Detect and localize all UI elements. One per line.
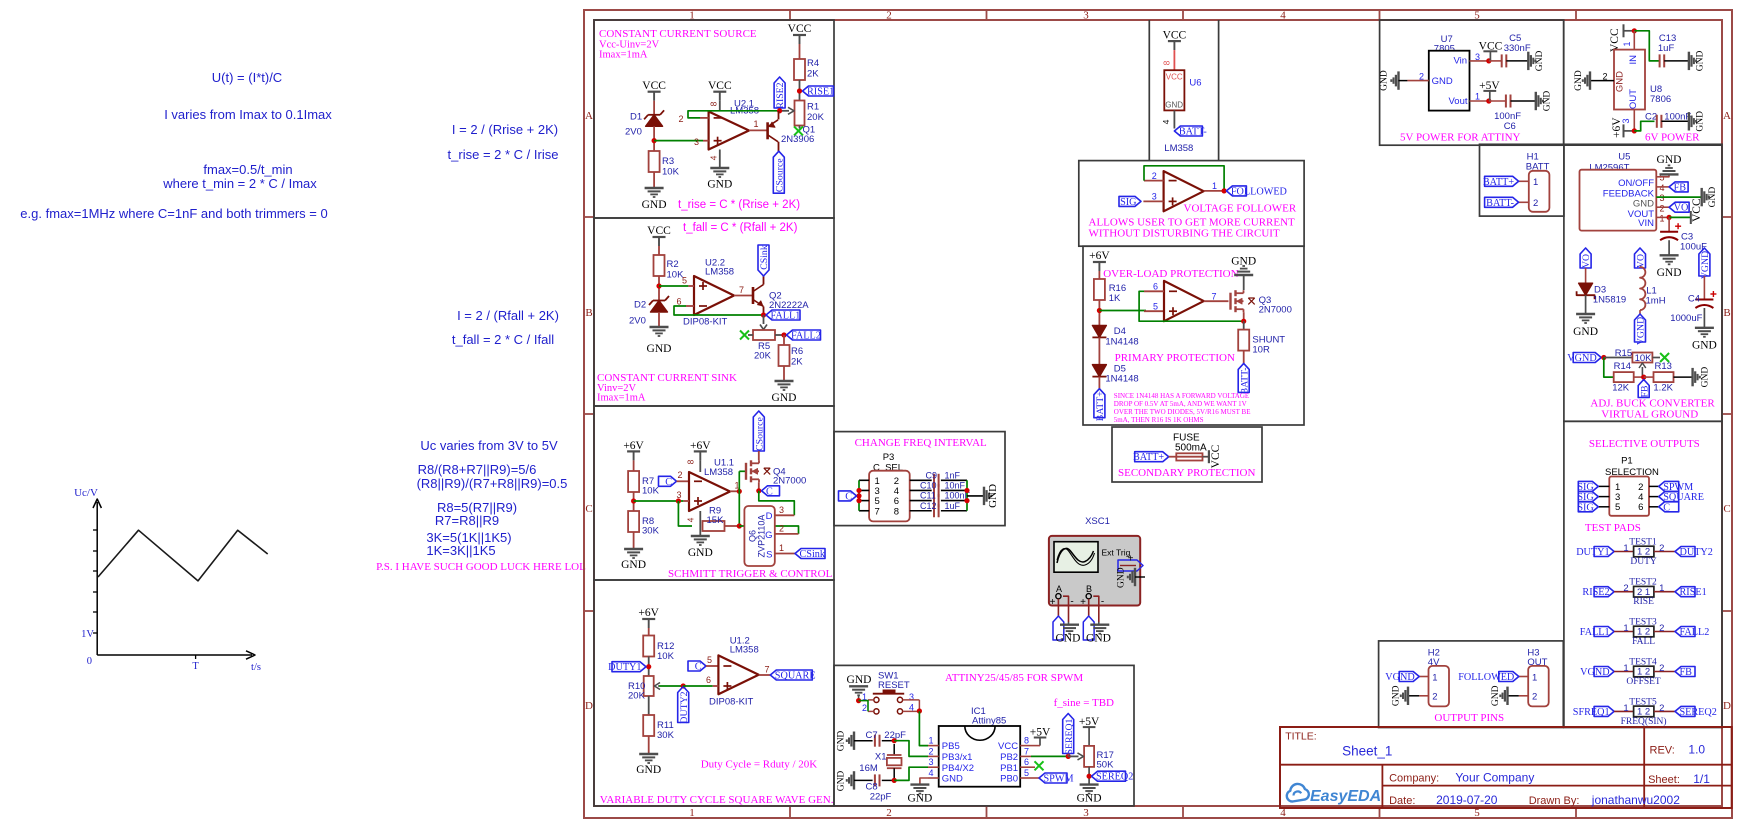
- wire D1 to R3: [653, 126, 655, 151]
- svg-text:VIRTUAL GROUND: VIRTUAL GROUND: [1601, 409, 1698, 421]
- net flag SEREQ2 at R17: [1092, 771, 1126, 781]
- wire PB1 no-connect: [1031, 766, 1035, 768]
- power +6V at U1.1: [694, 450, 707, 452]
- node pin3 junction: [676, 498, 681, 503]
- resistor R7: [628, 471, 639, 492]
- wire VCC to D1: [653, 101, 655, 115]
- svg-text:FALL2: FALL2: [791, 331, 821, 342]
- svg-text:FOLLOWED: FOLLOWED: [1458, 672, 1514, 683]
- graph x tick T: [195, 655, 197, 659]
- svg-text:SEREQ1: SEREQ1: [1064, 718, 1075, 754]
- ground below R3: [645, 187, 664, 189]
- svg-text:GND: GND: [1543, 91, 1553, 112]
- svg-text:5: 5: [1615, 502, 1620, 513]
- net flag FALL1: [1594, 627, 1614, 637]
- wire RISE2 to junction: [779, 108, 781, 111]
- capacitor C11: [933, 494, 935, 507]
- net flag BATT- at U6: [1174, 126, 1202, 136]
- wire TEST3 to FALL2: [1654, 631, 1675, 633]
- svg-text:SECONDARY PROTECTION: SECONDARY PROTECTION: [1118, 467, 1255, 479]
- svg-text:T: T: [192, 661, 199, 672]
- svg-text:5: 5: [707, 655, 712, 665]
- svg-text:XSC1: XSC1: [1085, 516, 1110, 527]
- svg-text:10K: 10K: [642, 486, 660, 497]
- ground below D2: [650, 326, 669, 328]
- box adj buck converter: [1564, 144, 1722, 421]
- svg-text:BATT-: BATT-: [1179, 127, 1208, 138]
- svg-text:PB4/X2: PB4/X2: [942, 763, 974, 774]
- IC1 right pin lines: [1020, 745, 1031, 747]
- pin 8 lead U6: [1173, 50, 1175, 70]
- graph x-axis: [97, 651, 255, 659]
- pin 4 stub U2.1 to GND: [719, 150, 721, 169]
- svg-text:3: 3: [1660, 193, 1665, 203]
- node output junction: [737, 489, 742, 494]
- svg-text:1: 1: [779, 543, 784, 553]
- diode D4 1N4148: [1092, 325, 1106, 337]
- svg-text:5: 5: [682, 276, 687, 286]
- pin 4 stub U1.1 to GND: [699, 511, 701, 536]
- svg-text:U(t) = (I*t)/C: U(t) = (I*t)/C: [212, 70, 282, 85]
- svg-text:X1: X1: [875, 752, 887, 763]
- svg-text:C: C: [695, 662, 702, 673]
- svg-text:(R8||R9)/(R7+R8||R9)=0.5: (R8||R9)/(R7+R8||R9)=0.5: [417, 476, 568, 491]
- svg-text:BATT+: BATT+: [1133, 452, 1164, 463]
- wire R6 to GND: [783, 366, 785, 381]
- resistor R13: [1644, 376, 1654, 378]
- box 6v power: [1564, 20, 1722, 145]
- svg-text:VCC: VCC: [1609, 28, 1621, 52]
- no-connect X at R1: [794, 126, 803, 135]
- crystal X1: [893, 744, 895, 755]
- svg-text:2V0: 2V0: [629, 316, 646, 327]
- wire SW1 pins 1-2: [868, 699, 874, 701]
- no-connect X at PB1: [1035, 761, 1044, 770]
- svg-text:GND: GND: [1380, 70, 1390, 91]
- svg-text:C10: C10: [920, 481, 937, 491]
- wire FALL1 to TEST3: [1614, 631, 1634, 633]
- svg-text:U5: U5: [1618, 152, 1630, 163]
- svg-text:SQUARE: SQUARE: [775, 671, 816, 682]
- svg-text:15K: 15K: [707, 515, 725, 526]
- svg-text:VCC: VCC: [708, 80, 732, 92]
- diode D5 1N4148: [1092, 365, 1106, 377]
- resistor R8: [628, 511, 639, 532]
- svg-text:B: B: [1086, 584, 1092, 594]
- svg-text:where t_min = 2 * C / Imax: where t_min = 2 * C / Imax: [162, 176, 317, 191]
- svg-text:SFREQ1: SFREQ1: [1573, 707, 1610, 718]
- zener diode D1: [646, 115, 663, 127]
- pin 7 output overload: [1204, 300, 1229, 302]
- svg-text:Sheet_1: Sheet_1: [1342, 744, 1392, 759]
- net flag BATT+ fuse: [1135, 452, 1169, 462]
- svg-text:Attiny85: Attiny85: [972, 716, 1006, 727]
- cap output lines: [941, 479, 967, 481]
- ground below U1.1: [691, 535, 710, 537]
- ground scope A: [1068, 622, 1070, 625]
- svg-text:RISE2: RISE2: [1582, 587, 1609, 598]
- svg-text:PB3/x1: PB3/x1: [942, 752, 973, 763]
- svg-text:1: 1: [1623, 543, 1628, 554]
- svg-text:CONSTANT CURRENT SOURCE: CONSTANT CURRENT SOURCE: [599, 28, 757, 40]
- net flag C at Q4 node: [762, 486, 780, 496]
- box constant current source: [594, 20, 834, 218]
- ground below C3: [1660, 254, 1679, 256]
- svg-text:SEREQ2: SEREQ2: [1096, 772, 1133, 783]
- svg-text:GND: GND: [707, 179, 732, 191]
- svg-text:2N3906: 2N3906: [781, 134, 814, 145]
- svg-text:3: 3: [1083, 807, 1089, 819]
- svg-text:6: 6: [1024, 757, 1029, 767]
- wire R10 to R11: [648, 696, 650, 715]
- svg-text:1: 1: [1623, 703, 1628, 714]
- svg-text:GND: GND: [987, 484, 999, 508]
- svg-text:GND: GND: [1657, 267, 1682, 279]
- svg-text:10K: 10K: [1635, 353, 1653, 364]
- svg-text:GND: GND: [1117, 567, 1127, 588]
- wire R2 to D2: [658, 276, 660, 301]
- capacitor C3 polarized: [1668, 217, 1670, 231]
- wire R15 right no-connect: [1652, 357, 1660, 359]
- svg-text:A: A: [1056, 584, 1062, 594]
- resistor R12: [643, 636, 654, 657]
- flag channel B probe: [1083, 616, 1094, 640]
- svg-text:C7: C7: [866, 730, 878, 741]
- wire feedback pin6 loop: [674, 306, 764, 315]
- pin 6 stub U2.2: [686, 305, 694, 307]
- svg-text:2: 2: [679, 114, 684, 124]
- node U5 VIN junction: [1667, 215, 1672, 220]
- pin 8 stub U2.1: [719, 101, 721, 112]
- net flag VGND at R15: [1573, 353, 1601, 363]
- svg-text:2: 2: [1659, 623, 1664, 634]
- svg-text:7806: 7806: [1650, 94, 1671, 105]
- svg-text:VGND: VGND: [1636, 317, 1647, 345]
- P3 right pin lines: [910, 479, 932, 481]
- svg-text:10K: 10K: [657, 651, 675, 662]
- svg-text:+: +: [1050, 597, 1056, 608]
- capacitor C4 polarized: [1695, 299, 1713, 301]
- svg-text:G: G: [765, 530, 772, 541]
- net flag RISE2: [1594, 587, 1614, 597]
- fuse body: [1169, 456, 1177, 458]
- svg-text:GND: GND: [1432, 76, 1453, 87]
- svg-text:B: B: [585, 307, 592, 319]
- wire R17 to SEREQ2 node: [1088, 767, 1090, 785]
- svg-text:2: 2: [886, 807, 892, 819]
- svg-text:GND: GND: [837, 771, 847, 792]
- wire L1 to VGND: [1639, 310, 1641, 314]
- node R9 junction: [737, 523, 742, 528]
- no-connect X at R5: [740, 331, 749, 340]
- svg-text:6: 6: [706, 675, 711, 685]
- pin 1 output follower: [1204, 190, 1227, 192]
- svg-text:1: 1: [1432, 672, 1437, 683]
- wire TEST2 to RISE1: [1654, 591, 1675, 593]
- svg-text:ATTINY25/45/85 FOR SPWM: ATTINY25/45/85 FOR SPWM: [945, 672, 1083, 684]
- wire R5 right to node: [775, 334, 784, 336]
- svg-text:Company:: Company:: [1389, 773, 1439, 785]
- wire VCC to R2: [658, 246, 660, 255]
- svg-text:EasyEDA: EasyEDA: [1310, 788, 1381, 805]
- power VCC at U2.1: [713, 91, 726, 93]
- net flag DUTY2: [1675, 547, 1695, 557]
- net flag SEREQ1: [1063, 714, 1074, 754]
- ground below R11: [639, 753, 658, 755]
- ground sideways at C2: [1688, 112, 1690, 130]
- connector P3 body: [869, 471, 910, 522]
- frame column ticks top: [789, 10, 791, 20]
- op-amp U2.2: [694, 276, 734, 315]
- box H1 battery input: [1480, 144, 1564, 216]
- svg-text:GND: GND: [642, 199, 667, 211]
- svg-text:100nF: 100nF: [1664, 112, 1691, 123]
- svg-text:1: 1: [928, 736, 933, 746]
- net flag BATT+ at H1: [1485, 176, 1519, 186]
- svg-text:CHANGE FREQ INTERVAL: CHANGE FREQ INTERVAL: [855, 437, 987, 449]
- ground below R8: [624, 548, 643, 550]
- svg-text:2: 2: [1659, 543, 1664, 554]
- svg-text:1K: 1K: [1109, 293, 1121, 304]
- flag channel A probe: [1053, 616, 1064, 640]
- svg-text:Duty Cycle = Rduty / 20K: Duty Cycle = Rduty / 20K: [701, 759, 818, 771]
- svg-text:Drawn By:: Drawn By:: [1529, 795, 1580, 807]
- svg-text:IN: IN: [1628, 55, 1639, 65]
- svg-text:7: 7: [739, 285, 744, 295]
- svg-text:4: 4: [1660, 183, 1665, 193]
- net flag CSink at Q2: [758, 245, 769, 276]
- wire scope A+ lead: [1057, 599, 1059, 616]
- net flag CSource: [773, 151, 784, 193]
- wire SHUNT to BATT-: [1243, 351, 1245, 364]
- svg-text:2: 2: [1623, 583, 1628, 594]
- svg-text:GND: GND: [1615, 71, 1626, 92]
- svg-text:1K=3K||1K5: 1K=3K||1K5: [426, 543, 495, 558]
- net flag FOLLOWED: [1226, 186, 1246, 196]
- svg-text:22pF: 22pF: [870, 792, 892, 803]
- pin 5 stub U2.2: [688, 285, 694, 287]
- svg-text:C4: C4: [1688, 294, 1700, 305]
- capacitor C9: [933, 474, 935, 487]
- wire node to C2: [1634, 121, 1654, 131]
- svg-text:OFFSET: OFFSET: [1626, 677, 1661, 687]
- svg-text:RISE2: RISE2: [775, 82, 786, 108]
- svg-text:1N4148: 1N4148: [1105, 374, 1138, 385]
- svg-text:WITHOUT DISTURBING THE CIRCUIT: WITHOUT DISTURBING THE CIRCUIT: [1089, 228, 1280, 240]
- svg-text:2K: 2K: [791, 357, 803, 368]
- svg-text:2V0: 2V0: [625, 127, 642, 138]
- svg-text:FREQ(SIN): FREQ(SIN): [1621, 716, 1667, 727]
- mosfet Q4 2N7000: [745, 463, 747, 480]
- svg-text:VGND: VGND: [1567, 353, 1596, 364]
- no-connect X at R15: [1660, 353, 1669, 362]
- svg-text:R4: R4: [807, 58, 819, 69]
- logo EasyEDA cloud: [1287, 784, 1309, 802]
- svg-text:330nF: 330nF: [1504, 43, 1531, 54]
- svg-text:8: 8: [709, 101, 719, 106]
- wire DUTY1 to TEST1: [1614, 551, 1634, 553]
- wire VGND to C4: [1703, 276, 1705, 300]
- svg-text:2: 2: [862, 703, 867, 713]
- svg-text:Vout: Vout: [1448, 96, 1467, 107]
- svg-text:8: 8: [686, 459, 696, 464]
- svg-text:30K: 30K: [657, 730, 675, 741]
- trimmer R1: [795, 101, 805, 126]
- trimmer R10: [644, 676, 654, 696]
- regulator U5 body: [1580, 170, 1657, 231]
- svg-text:7: 7: [1212, 292, 1217, 302]
- wire VO to D3: [1585, 268, 1587, 283]
- svg-text:FALL: FALL: [1632, 637, 1655, 647]
- svg-text:5mA, THEN R16 IS 1K OHMS: 5mA, THEN R16 IS 1K OHMS: [1114, 416, 1204, 424]
- net flag SQUARE at P1: [1659, 492, 1679, 502]
- title block outer: [1280, 727, 1732, 808]
- net flag C at P1: [1659, 502, 1679, 512]
- svg-text:P1: P1: [1621, 456, 1633, 467]
- P1 right pin lines: [1649, 485, 1659, 487]
- svg-text:1: 1: [1623, 663, 1628, 674]
- wire junction to opamp pin3: [654, 140, 703, 142]
- svg-text:R14: R14: [1614, 361, 1631, 372]
- pin 1 output U1.1: [730, 490, 739, 492]
- node R7-R8 junction: [631, 498, 636, 503]
- box U6 power pins: [1149, 20, 1218, 161]
- svg-text:1: 1: [689, 807, 695, 819]
- svg-text:3: 3: [928, 757, 933, 767]
- power VCC rotated at U5: [1690, 211, 1692, 224]
- svg-text:3: 3: [1083, 10, 1089, 22]
- wire CSource to Q4 drain: [758, 451, 760, 460]
- net flag C into pin2: [659, 476, 677, 486]
- net flag SPWM: [1039, 773, 1067, 783]
- svg-text:D4: D4: [1114, 326, 1126, 337]
- net flag BATT- at H1: [1485, 197, 1519, 207]
- node output-wiper junction: [777, 108, 782, 113]
- svg-text:f_sine = TBD: f_sine = TBD: [1054, 697, 1114, 709]
- graph triangle waveform: [98, 530, 268, 581]
- svg-text:SPWM: SPWM: [1044, 774, 1074, 785]
- net flag FB below R14: [1638, 380, 1649, 398]
- pin 6 stub overload: [1144, 290, 1164, 292]
- node Q4 source junction: [756, 488, 761, 493]
- svg-text:P.S. I HAVE SUCH GOOD LUCK HER: P.S. I HAVE SUCH GOOD LUCK HERE LOL: [376, 561, 586, 573]
- svg-text:1: 1: [1532, 672, 1537, 683]
- wire pin3 node down to R9: [678, 501, 692, 526]
- svg-text:FOLLOWED: FOLLOWED: [1231, 186, 1287, 197]
- svg-text:D1: D1: [630, 111, 642, 122]
- svg-text:VCC: VCC: [1166, 73, 1183, 82]
- ground below C4: [1695, 327, 1714, 329]
- svg-text:GND: GND: [688, 547, 713, 559]
- pin 6 stub U1.2: [713, 685, 719, 687]
- svg-text:5: 5: [1153, 302, 1158, 312]
- svg-text:RISE1: RISE1: [1680, 587, 1707, 598]
- svg-text:LM358: LM358: [705, 267, 734, 278]
- wire SW1 to PB5: [919, 711, 928, 745]
- svg-text:1nF: 1nF: [945, 470, 961, 480]
- node cap bus 2: [964, 498, 969, 503]
- zener diode D2: [651, 301, 668, 313]
- node DUTY1 junction: [646, 664, 651, 669]
- graph y ticks: [93, 529, 97, 531]
- svg-text:4: 4: [1280, 10, 1286, 22]
- wire TEST1 to DUTY2: [1654, 551, 1675, 553]
- wire VGND to TEST4: [1614, 671, 1634, 673]
- wire P3 select bus: [858, 480, 860, 510]
- ground sideways at R13: [1691, 368, 1693, 386]
- svg-text:PB1: PB1: [1000, 763, 1018, 774]
- channel A terminal: [1056, 594, 1061, 599]
- net flag FB at U5: [1669, 182, 1688, 192]
- svg-text:VO: VO: [1674, 203, 1689, 214]
- svg-text:+6V: +6V: [1611, 117, 1623, 138]
- box constant current sink: [594, 218, 834, 406]
- svg-text:2: 2: [1659, 703, 1664, 714]
- svg-text:Imax=1mA: Imax=1mA: [599, 50, 648, 61]
- resistor R9: [703, 521, 725, 531]
- svg-text:fmax=0.5/t_min: fmax=0.5/t_min: [203, 162, 292, 177]
- wire wiper to pin6: [683, 685, 713, 687]
- svg-text:C: C: [1663, 502, 1670, 513]
- node DUTY2 junction: [681, 683, 686, 688]
- net flag BATT+ at D5: [1094, 389, 1105, 418]
- svg-text:VGND: VGND: [1700, 251, 1711, 279]
- connector H3 body: [1528, 666, 1549, 707]
- svg-text:R15: R15: [1615, 348, 1632, 359]
- svg-text:GND: GND: [636, 764, 661, 776]
- svg-text:1: 1: [1623, 623, 1628, 634]
- net flag FALL1: [766, 310, 800, 320]
- svg-text:1mH: 1mH: [1646, 296, 1666, 307]
- net flag SIG 2: [1578, 492, 1598, 502]
- IC1 left pin lines: [928, 745, 939, 747]
- wire output down to gate node: [738, 471, 740, 526]
- mosfet block Q6 ZVP2110A: [744, 506, 774, 566]
- svg-text:GND: GND: [1165, 101, 1183, 110]
- wire junction to pin3 node: [634, 500, 684, 502]
- net flag VO at L1: [1635, 248, 1646, 268]
- svg-text:GND: GND: [1708, 187, 1718, 208]
- power +6V at R12: [642, 618, 655, 620]
- svg-text:500mA: 500mA: [1175, 443, 1207, 454]
- ground sideways at C5: [1527, 52, 1529, 70]
- node R5-R6 junction: [781, 332, 786, 337]
- wire R14 to node: [1634, 376, 1644, 378]
- resistor SHUNT 10R: [1238, 330, 1249, 351]
- svg-text:VCC: VCC: [1210, 444, 1222, 468]
- svg-text:GND: GND: [1701, 367, 1711, 388]
- frame row ticks: [584, 216, 594, 218]
- svg-text:50K: 50K: [1097, 760, 1115, 771]
- svg-text:CSink: CSink: [759, 245, 770, 270]
- pin 2 line Q6 gate: [775, 533, 799, 535]
- resistor R2: [654, 255, 665, 276]
- power VCC at D1: [648, 91, 661, 93]
- node VGND junction: [1601, 355, 1606, 360]
- svg-text:FB: FB: [1674, 182, 1687, 193]
- svg-text:OVER-LOAD PROTECTION: OVER-LOAD PROTECTION: [1103, 268, 1238, 280]
- svg-text:R13: R13: [1655, 361, 1672, 372]
- wire R16 to D4: [1098, 300, 1100, 325]
- svg-text:DIP08-KIT: DIP08-KIT: [683, 317, 728, 328]
- svg-text:D: D: [585, 700, 593, 712]
- svg-text:Your Company: Your Company: [1455, 771, 1534, 785]
- box 5v power for attiny: [1380, 20, 1564, 145]
- net flag FOLLOWED at H3: [1499, 672, 1519, 682]
- svg-text:GND: GND: [621, 559, 646, 571]
- wire D5 to BATT+: [1098, 377, 1100, 389]
- svg-text:20K: 20K: [754, 351, 772, 362]
